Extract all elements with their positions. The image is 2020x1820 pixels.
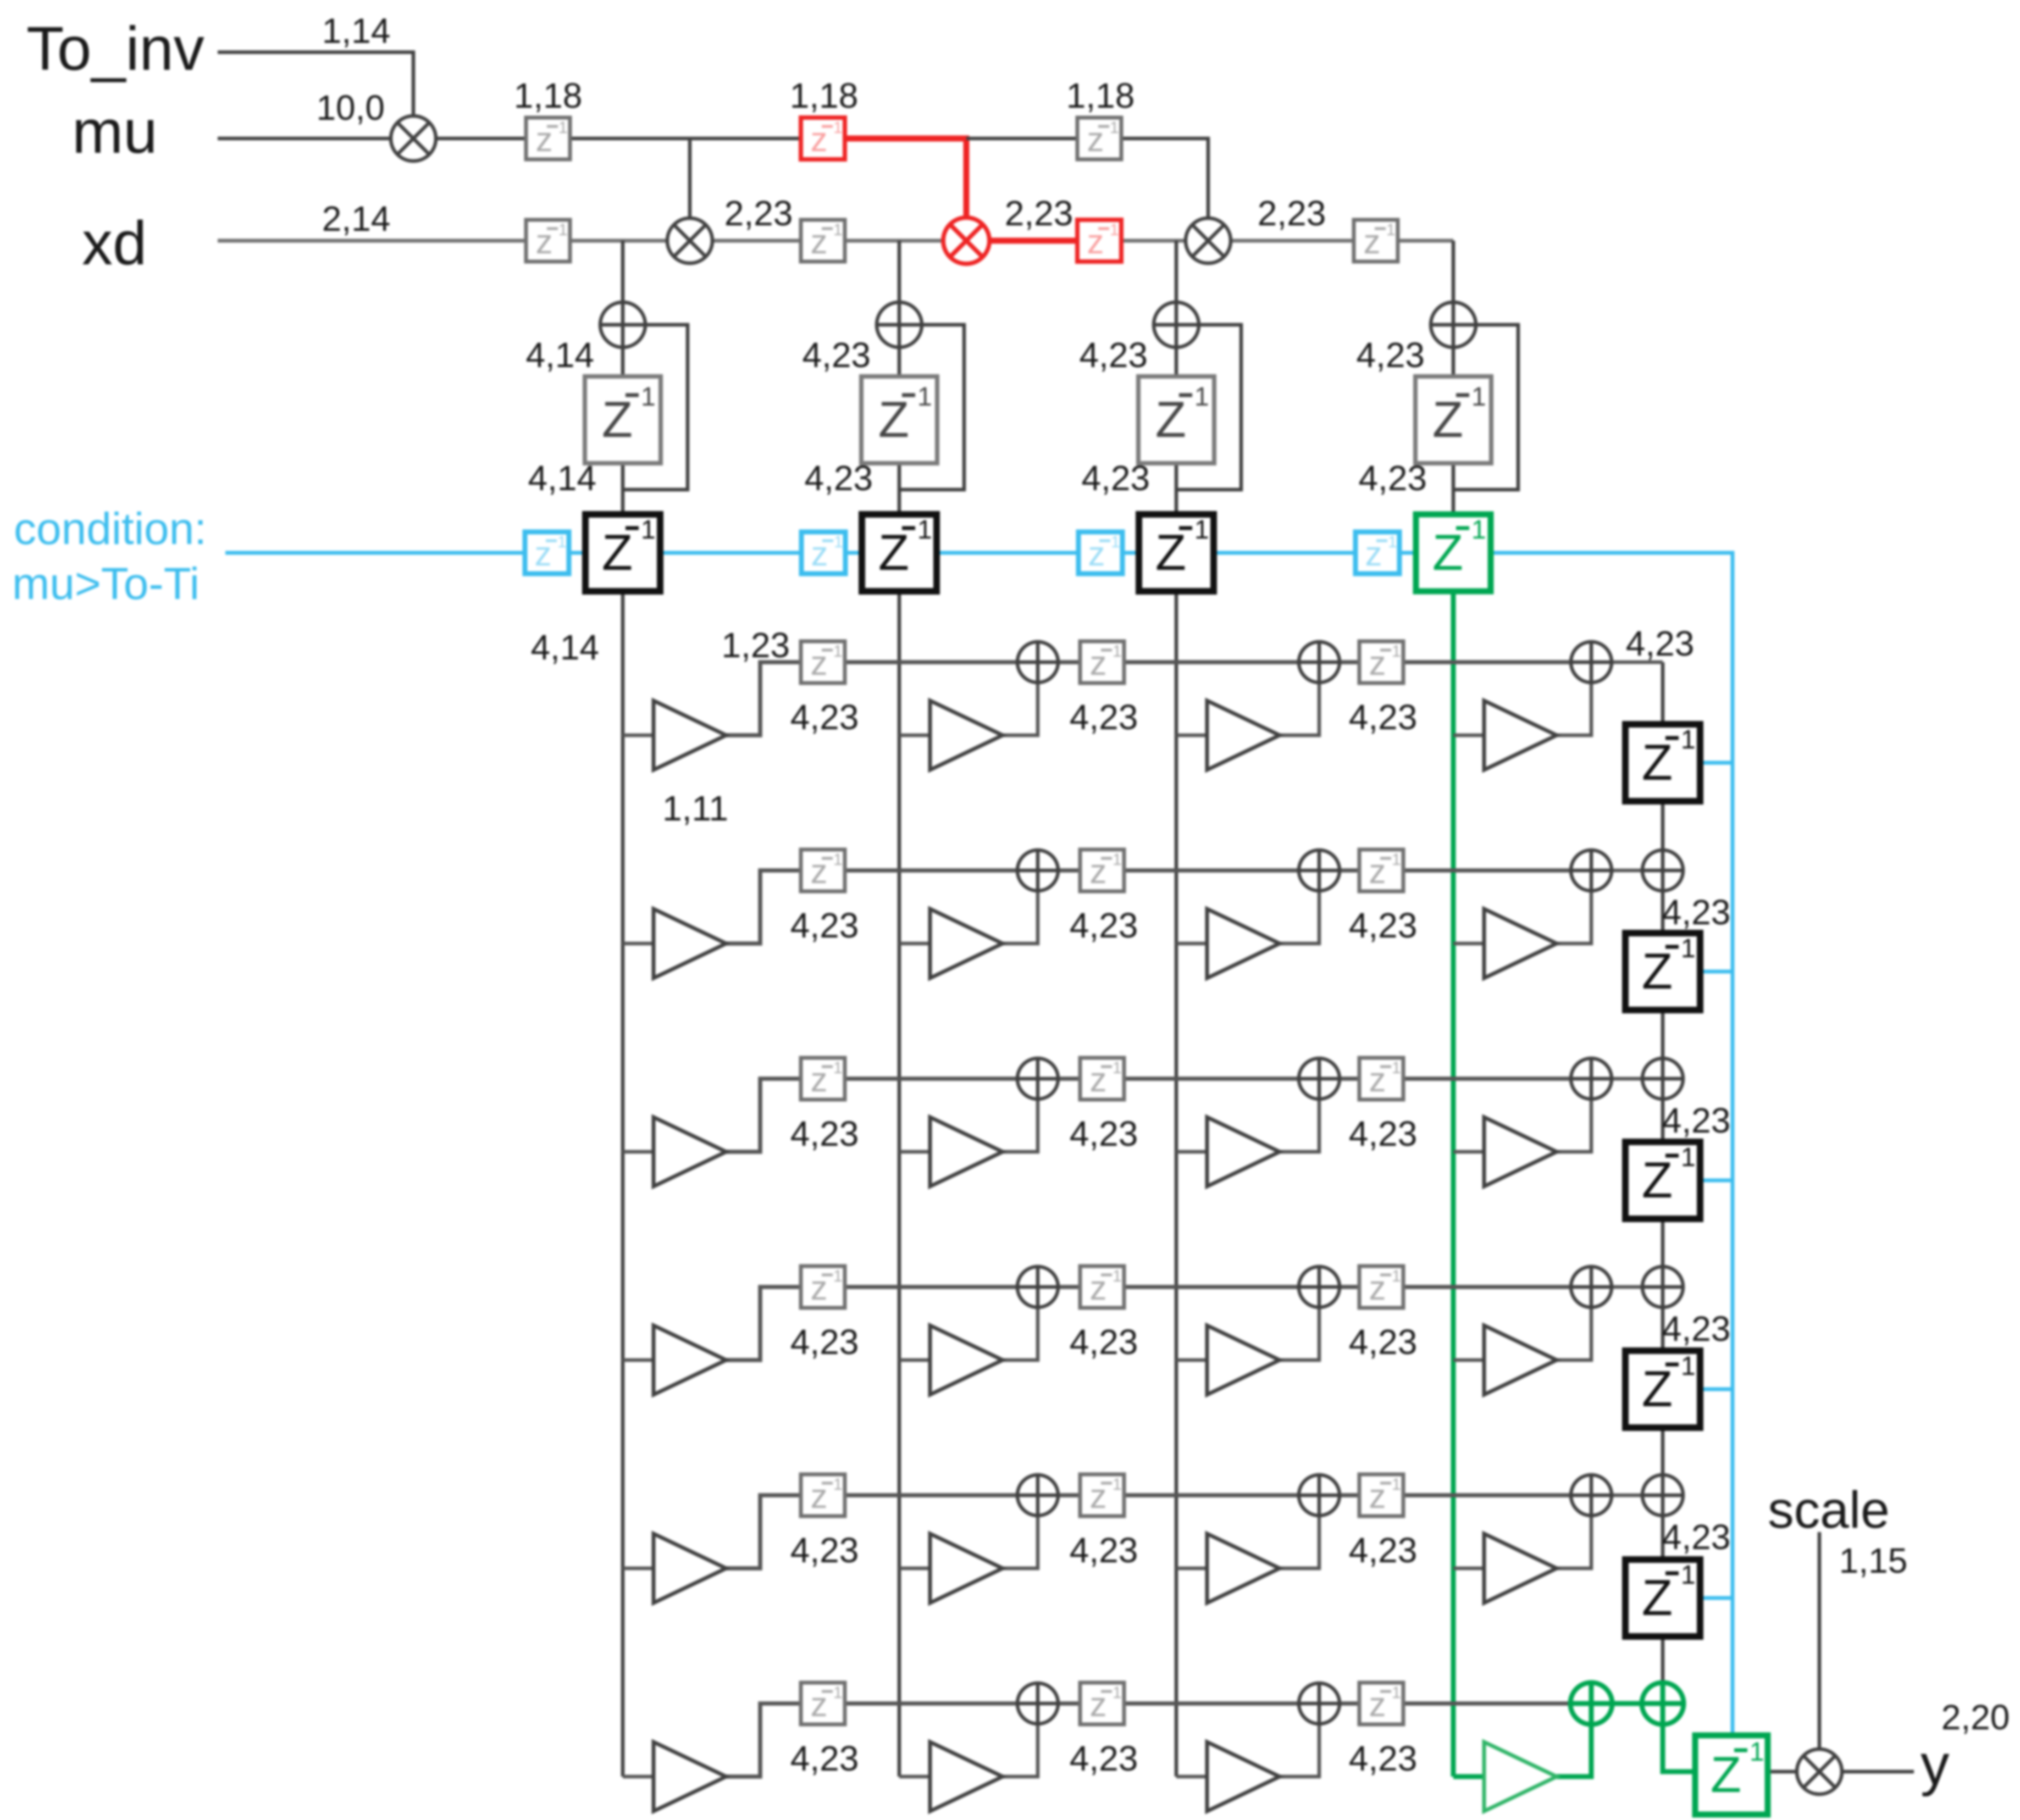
wire mult U2 to z-box D5: [712, 239, 801, 243]
svg-text:1: 1: [917, 382, 932, 412]
wire row2 col2 z to col3 adder: [1124, 868, 1299, 873]
wire green row6 amp to adder: [1557, 1724, 1591, 1777]
wire green column 4 vertical bus: [1451, 591, 1456, 1777]
wire row4 amp A44 up to adder: [1557, 1307, 1591, 1360]
delay z^-1 row2 col3: [1359, 850, 1403, 891]
svg-text:Z: Z: [878, 392, 909, 448]
svg-text:Z: Z: [1155, 392, 1186, 448]
adder row2 cascade: [1642, 850, 1683, 891]
amplifier A13: [1207, 701, 1280, 770]
svg-text:1: 1: [1471, 382, 1486, 412]
svg-text:4,23: 4,23: [1070, 1739, 1138, 1778]
wire cascade Z10 to row2 adder: [1661, 801, 1665, 850]
wire row2 col2 adder to z-box: [1058, 868, 1080, 873]
delay blue z^-1 condition column 2: [801, 532, 845, 574]
wire row1 col3 amp input stub: [1176, 734, 1207, 737]
svg-text:4,23: 4,23: [1626, 624, 1695, 663]
delay Z15 final z^-1 green: [1695, 1735, 1768, 1815]
amplifier A44: [1484, 1325, 1557, 1395]
wire cascade Z13 to row5 adder: [1661, 1428, 1665, 1475]
adder row5 col3: [1299, 1475, 1340, 1516]
delay z^-1 row1 col1: [801, 641, 845, 683]
svg-text:1: 1: [558, 119, 568, 137]
delay z^-1 row2 col2: [1080, 850, 1124, 891]
wire row4 adder to cascade Z13: [1661, 1307, 1665, 1351]
adder row3 cascade: [1642, 1058, 1683, 1099]
svg-text:1,15: 1,15: [1839, 1541, 1908, 1580]
adder row2 col4: [1571, 850, 1612, 891]
wire column 1 vertical bus: [621, 241, 625, 1777]
wire row2 amp A21 to z-box: [726, 870, 801, 944]
delay Z14 cascade z^-1: [1625, 1560, 1700, 1636]
adder row5 col4: [1571, 1475, 1612, 1516]
amplifier A11: [654, 701, 726, 770]
svg-text:Z: Z: [1642, 735, 1673, 791]
delay Z3 accumulator z^-1 column 3: [1138, 376, 1214, 463]
wire row5 amp A53 up to adder: [1280, 1516, 1319, 1568]
svg-text:1: 1: [1681, 1352, 1696, 1381]
svg-text:1: 1: [833, 221, 843, 239]
delay z^-1 row5 col1: [801, 1474, 845, 1516]
wire xd D4 to mult U2: [570, 239, 667, 243]
svg-text:4,23: 4,23: [1356, 335, 1425, 375]
wire row6 amp A63 up to adder: [1280, 1724, 1319, 1777]
wire xd input: [218, 239, 526, 243]
svg-text:1: 1: [833, 851, 843, 869]
svg-text:1: 1: [557, 533, 567, 551]
delay z^-1 row2 col1: [801, 850, 845, 891]
amplifier A62: [930, 1742, 1003, 1811]
wire D1 output / node A: [570, 137, 801, 141]
wire row5 col3 adder to z-box: [1340, 1493, 1359, 1497]
wire red mult U3 to red z-box D6: [989, 238, 1077, 244]
wire mult U4 to z-box D7: [1231, 239, 1354, 243]
wire row4 amp A41 to z-box: [726, 1287, 801, 1360]
wire row1 amp A12 up to adder: [1003, 682, 1038, 735]
wire row1 col4 adder to cascade: [1612, 661, 1663, 664]
adder row1 col3: [1299, 642, 1340, 682]
adder row4 col2: [1017, 1267, 1058, 1307]
wire row4 col3 z to col4 adder: [1403, 1285, 1571, 1289]
svg-text:scale: scale: [1768, 1481, 1890, 1539]
delay z^-1 row5 col2: [1080, 1474, 1124, 1516]
amplifier A14: [1484, 701, 1557, 770]
delay Z6 conditional z^-1 column 2: [862, 514, 937, 591]
wire row3 amp A33 up to adder: [1280, 1099, 1319, 1152]
wire green between row6 adders: [1612, 1701, 1642, 1706]
wire row6 col3 amp input stub: [1176, 1775, 1207, 1779]
svg-text:4,23: 4,23: [1070, 906, 1138, 945]
adder row3 col2: [1017, 1058, 1058, 1099]
multiplier U4: [1186, 218, 1231, 263]
svg-text:1: 1: [1110, 221, 1119, 239]
wire row1 col2 adder to z-box: [1058, 660, 1080, 664]
delay z^-1 row4 col3: [1359, 1266, 1403, 1308]
wire row6 amp A62 up to adder: [1003, 1724, 1038, 1777]
adder S3 column 3 accumulator: [1154, 302, 1199, 347]
wire row4 col4 adder to cascade adder: [1612, 1285, 1642, 1289]
svg-text:4,14: 4,14: [525, 335, 594, 375]
svg-text:4,23: 4,23: [1070, 697, 1138, 737]
adder row6 col2: [1017, 1683, 1058, 1724]
delay z^-1 row5 col3: [1359, 1474, 1403, 1516]
svg-text:2,23: 2,23: [724, 193, 793, 233]
svg-text:1: 1: [833, 1267, 843, 1285]
wire blue stub to cascade Z13: [1700, 1388, 1733, 1391]
svg-text:4,23: 4,23: [1662, 1517, 1731, 1557]
wire row2 col1 amp input stub: [623, 942, 654, 946]
svg-text:4,23: 4,23: [1662, 1309, 1731, 1349]
svg-text:Z: Z: [1432, 392, 1463, 448]
amplifier A64: [1484, 1742, 1557, 1811]
wire row5 col2 z to col3 adder: [1124, 1493, 1299, 1497]
svg-text:1: 1: [834, 533, 843, 551]
amplifier A31: [654, 1117, 726, 1186]
svg-text:4,23: 4,23: [1079, 335, 1148, 375]
svg-text:4,23: 4,23: [1349, 906, 1418, 945]
wire row4 col1 z to col2 adder: [845, 1285, 1017, 1289]
amplifier A32: [930, 1117, 1003, 1186]
wire feedback loop column 1: [623, 325, 688, 490]
wire row1 col1 amp input stub: [623, 734, 654, 737]
delay D2 z^-1 red (mu) 1,18: [801, 118, 845, 159]
svg-text:1: 1: [1194, 382, 1209, 412]
wire row6 amp A61 to z-box: [726, 1704, 801, 1777]
wire mult U5 to y output: [1842, 1770, 1914, 1774]
delay Z5 conditional z^-1 column 1: [585, 514, 660, 591]
wire row4 col2 adder to z-box: [1058, 1285, 1080, 1289]
wire cascade Z11 to row3 adder: [1661, 1010, 1665, 1058]
wire D6 to mult U4: [1121, 239, 1186, 243]
delay z^-1 row1 col3: [1359, 641, 1403, 683]
wire row1 amp A13 up to adder: [1280, 682, 1319, 735]
svg-text:condition:: condition:: [14, 504, 207, 554]
svg-text:1: 1: [1392, 851, 1401, 869]
adder row3 col3: [1299, 1058, 1340, 1099]
amplifier A33: [1207, 1117, 1280, 1186]
delay Z7 conditional z^-1 column 3: [1139, 514, 1214, 591]
wire row2 col2 amp input stub: [899, 942, 930, 946]
adder green row6 col4: [1570, 1683, 1612, 1724]
wire row4 col2 z to col3 adder: [1124, 1285, 1299, 1289]
amplifier A12: [930, 701, 1003, 770]
delay D7 z^-1 (xd): [1354, 220, 1398, 262]
wire final Z to mult U5: [1768, 1770, 1797, 1774]
adder row2 col2: [1017, 850, 1058, 891]
svg-text:1: 1: [558, 221, 568, 239]
wire row6 col2 z to col3 adder: [1124, 1701, 1299, 1706]
wire cascade Z12 to row4 adder: [1661, 1219, 1665, 1267]
wire row6 col4 amp input stub: [1453, 1774, 1484, 1779]
svg-text:1,18: 1,18: [514, 76, 583, 115]
amplifier A61: [654, 1742, 726, 1811]
delay z^-1 row4 col1: [801, 1266, 845, 1308]
amplifier A43: [1207, 1325, 1280, 1395]
svg-text:1: 1: [1388, 533, 1397, 551]
wire row1 col4 amp input stub: [1453, 734, 1484, 737]
wire mu input: [218, 137, 391, 141]
wire row3 amp A31 to z-box: [726, 1079, 801, 1152]
svg-text:4,23: 4,23: [1349, 1530, 1418, 1570]
wire row5 amp A54 up to adder: [1557, 1516, 1591, 1568]
wire row2 col1 z to col2 adder: [845, 868, 1017, 873]
wire feedback loop column 2: [899, 325, 964, 490]
wire row4 amp A43 up to adder: [1280, 1307, 1319, 1360]
wire row1 to cascade Z10: [1661, 662, 1665, 724]
wire tap node A down to mult U2: [688, 138, 692, 218]
wire To_inv input: [218, 52, 413, 116]
wire row6 col3 adder to z-box: [1340, 1701, 1359, 1706]
wire row1 amp A11 to z-box: [726, 662, 801, 735]
svg-text:2,23: 2,23: [1258, 193, 1326, 233]
svg-text:1,18: 1,18: [1066, 76, 1135, 115]
wire row5 amp A51 to z-box: [726, 1495, 801, 1568]
svg-text:4,14: 4,14: [528, 458, 596, 498]
svg-text:2,14: 2,14: [322, 199, 391, 238]
wire row4 col3 amp input stub: [1176, 1358, 1207, 1362]
adder row4 col3: [1299, 1267, 1340, 1307]
svg-text:1: 1: [1113, 1059, 1122, 1077]
wire row6 col1 amp input stub: [623, 1775, 654, 1779]
wire row3 adder to cascade Z12: [1661, 1099, 1665, 1142]
svg-text:4,23: 4,23: [1349, 1114, 1418, 1153]
wire row3 col3 adder to z-box: [1340, 1077, 1359, 1081]
svg-text:1,14: 1,14: [322, 11, 391, 51]
wire feedback loop column 3: [1176, 325, 1241, 490]
wire row3 col1 amp input stub: [623, 1150, 654, 1154]
wire row5 amp A52 up to adder: [1003, 1516, 1038, 1568]
wire row6 col2 amp input stub: [899, 1775, 930, 1779]
svg-text:1: 1: [833, 1059, 843, 1077]
svg-text:Z: Z: [602, 392, 633, 448]
delay Z1 accumulator z^-1 column 1: [585, 376, 661, 463]
svg-text:To_inv: To_inv: [26, 14, 204, 83]
wire green row6 adder to final Z: [1663, 1724, 1695, 1772]
wire column 4 vertical top: [1452, 241, 1455, 514]
delay D5 z^-1 (xd): [801, 220, 845, 262]
svg-text:xd: xd: [82, 209, 147, 278]
wire row4 amp A42 up to adder: [1003, 1307, 1038, 1360]
svg-text:Z: Z: [1432, 525, 1463, 581]
svg-text:4,23: 4,23: [790, 697, 859, 737]
delay D4 z^-1 (xd) 2,14: [526, 220, 570, 262]
svg-text:4,23: 4,23: [1081, 458, 1150, 498]
wire row1 col1 z to col2 adder: [845, 660, 1017, 664]
svg-text:Z: Z: [1642, 1570, 1673, 1626]
svg-text:4,23: 4,23: [1349, 1322, 1418, 1362]
adder row4 cascade: [1642, 1267, 1683, 1307]
svg-text:Z: Z: [878, 525, 909, 581]
svg-text:Z: Z: [1642, 1361, 1673, 1417]
wire row2 amp A24 up to adder: [1557, 891, 1591, 944]
svg-text:y: y: [1921, 1733, 1950, 1797]
wire D5 to red mult U3: [845, 239, 944, 243]
amplifier A52: [930, 1534, 1003, 1603]
amplifier A51: [654, 1534, 726, 1603]
multiplier U1 (To_inv x mu): [391, 116, 436, 161]
svg-text:1: 1: [1113, 851, 1122, 869]
wire row1 col2 amp input stub: [899, 734, 930, 737]
svg-text:4,23: 4,23: [802, 335, 871, 375]
svg-text:2,20: 2,20: [1941, 1697, 2010, 1737]
svg-text:4,23: 4,23: [1662, 1101, 1731, 1140]
wire row3 amp A34 up to adder: [1557, 1099, 1591, 1152]
adder row5 col2: [1017, 1475, 1058, 1516]
svg-text:1: 1: [641, 382, 656, 412]
wire row3 col4 amp input stub: [1453, 1150, 1484, 1154]
wire row4 col4 amp input stub: [1453, 1358, 1484, 1362]
svg-text:1: 1: [1392, 1267, 1401, 1285]
svg-text:1: 1: [1194, 515, 1209, 545]
svg-text:Z: Z: [1711, 1747, 1741, 1803]
svg-text:4,23: 4,23: [790, 1530, 859, 1570]
delay Z12 cascade z^-1: [1625, 1142, 1700, 1219]
svg-text:2,23: 2,23: [1005, 193, 1073, 233]
wire row4 col3 adder to z-box: [1340, 1285, 1359, 1289]
svg-text:Z: Z: [1642, 1152, 1673, 1208]
adder row3 col4: [1571, 1058, 1612, 1099]
wire row5 col4 adder to cascade adder: [1612, 1494, 1642, 1497]
adder row6 col3: [1299, 1683, 1340, 1724]
wire row5 adder to cascade Z14: [1661, 1516, 1665, 1560]
amplifier A41: [654, 1325, 726, 1395]
svg-text:1: 1: [1392, 1475, 1401, 1494]
svg-text:4,23: 4,23: [804, 458, 873, 498]
wire blue stub to cascade Z14: [1700, 1596, 1733, 1600]
wire row3 col4 adder to cascade adder: [1612, 1077, 1642, 1081]
wire row2 amp A22 up to adder: [1003, 891, 1038, 944]
adder S4 column 4 accumulator: [1431, 302, 1476, 347]
delay Z13 cascade z^-1: [1625, 1351, 1700, 1428]
wire row3 col2 z to col3 adder: [1124, 1077, 1299, 1081]
wire row2 col4 adder to cascade adder: [1612, 869, 1642, 873]
svg-text:4,14: 4,14: [530, 628, 599, 667]
amplifier A63: [1207, 1742, 1280, 1811]
svg-text:1: 1: [1392, 1059, 1401, 1077]
svg-text:1: 1: [1111, 533, 1120, 551]
svg-text:4,23: 4,23: [1070, 1530, 1138, 1570]
wire row5 col2 adder to z-box: [1058, 1493, 1080, 1497]
svg-text:1: 1: [1113, 1475, 1122, 1494]
amplifier A53: [1207, 1534, 1280, 1603]
svg-text:4,23: 4,23: [1349, 697, 1418, 737]
svg-text:Z: Z: [1155, 525, 1186, 581]
amplifier A22: [930, 909, 1003, 978]
svg-text:4,23: 4,23: [790, 906, 859, 945]
svg-text:4,23: 4,23: [790, 1322, 859, 1362]
wire row1 col3 z to col4 adder: [1403, 660, 1571, 664]
wire row3 amp A32 up to adder: [1003, 1099, 1038, 1152]
svg-text:1: 1: [1113, 1267, 1122, 1285]
svg-text:1: 1: [1681, 1143, 1696, 1172]
wire row3 col3 z to col4 adder: [1403, 1077, 1571, 1081]
svg-text:4,23: 4,23: [790, 1114, 859, 1153]
delay D1 z^-1 (mu) 1,18: [526, 118, 570, 159]
svg-text:1: 1: [1113, 1684, 1122, 1702]
wire row2 col3 adder to z-box: [1340, 868, 1359, 873]
wire row2 col4 amp input stub: [1453, 942, 1484, 946]
svg-text:4,23: 4,23: [1070, 1114, 1138, 1153]
svg-text:1: 1: [1681, 725, 1696, 754]
multiplier U5 (scale): [1797, 1749, 1842, 1794]
wire row2 amp A23 up to adder: [1280, 891, 1319, 944]
wire row4 col1 amp input stub: [623, 1358, 654, 1362]
wire row5 col3 amp input stub: [1176, 1567, 1207, 1571]
svg-text:4,23: 4,23: [1662, 892, 1731, 932]
wire node B to z-box D3: [966, 137, 1077, 141]
svg-text:4,23: 4,23: [790, 1739, 859, 1778]
delay blue z^-1 condition column 4: [1355, 532, 1399, 574]
wire row3 col3 amp input stub: [1176, 1150, 1207, 1154]
delay z^-1 row3 col1: [801, 1058, 845, 1100]
svg-text:1,11: 1,11: [662, 789, 728, 828]
wire row3 col2 amp input stub: [899, 1150, 930, 1154]
adder green row6 cascade: [1642, 1683, 1684, 1724]
wire row2 col3 amp input stub: [1176, 942, 1207, 946]
svg-text:1: 1: [833, 1475, 843, 1494]
delay Z11 cascade z^-1: [1625, 933, 1700, 1010]
svg-text:4,23: 4,23: [1349, 1739, 1418, 1778]
wire blue stub to cascade Z10: [1700, 761, 1733, 765]
delay z^-1 row6 col1: [801, 1683, 845, 1724]
svg-text:1: 1: [1392, 1684, 1401, 1702]
wire row5 col3 z to col4 adder: [1403, 1493, 1571, 1497]
wire row6 col3 z to col4 adder: [1403, 1701, 1571, 1706]
delay z^-1 row3 col2: [1080, 1058, 1124, 1100]
adder row1 col2: [1017, 642, 1058, 682]
wire D7 to column 4 node: [1398, 239, 1453, 243]
wire blue stub to cascade Z11: [1700, 970, 1733, 974]
wire column 3 vertical bus: [1175, 241, 1178, 1777]
wire feedback loop column 4: [1453, 325, 1518, 490]
svg-text:1: 1: [1110, 119, 1119, 137]
svg-text:1: 1: [1392, 642, 1401, 661]
svg-text:1,23: 1,23: [721, 625, 790, 665]
amplifier A21: [654, 909, 726, 978]
delay z^-1 row6 col3: [1359, 1683, 1403, 1724]
delay Z8 conditional z^-1 column 4 green: [1416, 514, 1491, 591]
svg-text:1: 1: [1750, 1738, 1764, 1767]
svg-text:1,18: 1,18: [790, 76, 859, 115]
svg-text:1: 1: [833, 1684, 843, 1702]
svg-text:1: 1: [833, 642, 843, 661]
wire row1 col3 adder to z-box: [1340, 660, 1359, 664]
delay blue z^-1 condition column 1: [525, 532, 569, 574]
delay z^-1 row4 col2: [1080, 1266, 1124, 1308]
delay blue z^-1 condition column 3: [1078, 532, 1122, 574]
wire row5 col1 z to col2 adder: [845, 1493, 1017, 1497]
wire row4 col2 amp input stub: [899, 1358, 930, 1362]
adder row5 cascade: [1642, 1475, 1683, 1516]
wire row5 col1 amp input stub: [623, 1567, 654, 1571]
svg-text:1: 1: [1113, 642, 1122, 661]
svg-text:10,0: 10,0: [316, 88, 385, 127]
delay z^-1 row6 col2: [1080, 1683, 1124, 1724]
delay D6 z^-1 red (xd): [1077, 220, 1121, 262]
svg-text:mu: mu: [72, 97, 158, 166]
svg-text:4,23: 4,23: [1070, 1322, 1138, 1362]
svg-text:1: 1: [833, 119, 843, 137]
wire row1 col2 z to col3 adder: [1124, 660, 1299, 664]
amplifier A42: [930, 1325, 1003, 1395]
amplifier A23: [1207, 909, 1280, 978]
svg-text:1: 1: [1386, 221, 1396, 239]
svg-text:1: 1: [1681, 1561, 1696, 1590]
delay Z10 cascade z^-1: [1625, 724, 1700, 801]
svg-text:mu>To-Ti: mu>To-Ti: [12, 559, 200, 609]
wire row6 col1 z to col2 adder: [845, 1701, 1017, 1706]
wire D3 output down to mult U4: [1121, 138, 1208, 218]
